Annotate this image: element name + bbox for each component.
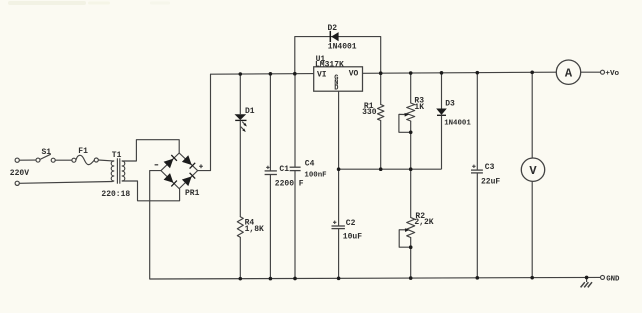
svg-text:D1: D1 <box>245 107 255 116</box>
svg-text:F1: F1 <box>78 147 88 156</box>
svg-text:VO: VO <box>349 70 359 79</box>
svg-text:1,8K: 1,8K <box>245 225 264 234</box>
svg-text:D3: D3 <box>445 100 455 109</box>
svg-text:LM317K: LM317K <box>315 61 344 70</box>
svg-text:T1: T1 <box>112 151 122 160</box>
svg-text:10uF: 10uF <box>343 233 362 242</box>
svg-text:1K: 1K <box>414 103 424 112</box>
svg-text:GND: GND <box>606 275 620 283</box>
svg-text:D: D <box>334 85 338 93</box>
svg-text:PR1: PR1 <box>185 189 200 198</box>
svg-text:VI: VI <box>317 70 327 79</box>
svg-text:220V: 220V <box>10 169 29 178</box>
svg-text:1N4001: 1N4001 <box>328 42 357 51</box>
svg-text:C4: C4 <box>305 160 315 169</box>
svg-text:22uF: 22uF <box>481 178 500 187</box>
svg-text:2200: 2200 <box>275 180 294 189</box>
svg-text:C3: C3 <box>485 163 495 172</box>
svg-text:S1: S1 <box>42 148 52 157</box>
svg-text:1N4001: 1N4001 <box>444 120 471 128</box>
svg-text:220:18: 220:18 <box>101 190 130 199</box>
svg-text:F: F <box>299 180 304 189</box>
svg-text:330: 330 <box>362 108 377 117</box>
svg-text:A: A <box>565 67 573 81</box>
svg-text:D2: D2 <box>328 24 338 33</box>
svg-text:C2: C2 <box>346 219 356 228</box>
svg-text:C1: C1 <box>279 165 289 174</box>
svg-text:100nF: 100nF <box>304 171 326 179</box>
svg-text:V: V <box>529 164 537 178</box>
svg-text:+Vo: +Vo <box>605 70 619 78</box>
svg-text:2,2K: 2,2K <box>414 218 433 227</box>
